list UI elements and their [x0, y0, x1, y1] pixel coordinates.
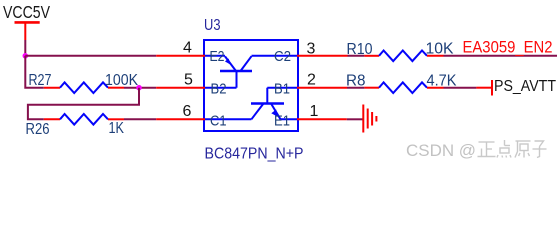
- wire R27 to pin 5: [124, 87, 156, 89]
- transistor array U3 box: [204, 40, 298, 131]
- pin 6 stub: [156, 118, 205, 120]
- ground: [363, 105, 376, 133]
- wire junction down to R27 row: [25, 56, 44, 88]
- svg-text:R8: R8: [346, 73, 366, 90]
- watermark CSDN: [406, 141, 476, 160]
- glyph 原: [515, 141, 531, 158]
- svg-text:R10: R10: [347, 41, 373, 58]
- wire pin 2 to R8: [347, 87, 364, 89]
- wire pin 3 to R10: [348, 55, 365, 57]
- svg-text:E1: E1: [274, 112, 290, 129]
- svg-text:R26: R26: [26, 121, 50, 138]
- wire net to pin 4: [25, 55, 156, 57]
- Q1 NPN emitter arrow: [271, 110, 278, 117]
- svg-text:6: 6: [183, 103, 192, 120]
- resistor R27: [29, 72, 139, 93]
- pin 4 stub: [156, 55, 205, 57]
- wire VCC5V vertical to junction: [24, 40, 26, 56]
- svg-text:PS_AVTT: PS_AVTT: [494, 78, 556, 95]
- svg-text:E2: E2: [210, 48, 225, 65]
- svg-text:3: 3: [307, 40, 316, 57]
- pin 5 stub: [156, 87, 205, 89]
- node junction A (VCC5V): [23, 53, 29, 59]
- svg-text:EA3059_EN2: EA3059_EN2: [463, 38, 553, 56]
- glyph 子: [533, 141, 547, 158]
- svg-text:5: 5: [184, 72, 193, 89]
- pin 3 stub: [297, 55, 348, 57]
- resistor R10: [347, 41, 454, 62]
- transistor Q1 (NPN half) internals: [205, 88, 297, 120]
- svg-text:BC847PN_N+P: BC847PN_N+P: [205, 146, 304, 163]
- svg-text:C1: C1: [210, 112, 227, 129]
- svg-text:1K: 1K: [109, 120, 125, 137]
- wire R26 to pin 6: [124, 118, 156, 120]
- power symbol VCC5V: [3, 2, 50, 40]
- glyph 点: [497, 140, 511, 158]
- svg-text:100K: 100K: [105, 72, 138, 89]
- resistor R26: [26, 114, 125, 138]
- resistor R8: [346, 73, 457, 93]
- svg-text:CSDN @: CSDN @: [406, 141, 476, 160]
- svg-text:R27: R27: [29, 72, 52, 89]
- glyph 正: [478, 142, 496, 157]
- svg-text:2: 2: [307, 72, 316, 89]
- wire pin 1 to ground: [347, 118, 363, 120]
- pin 2 stub: [297, 87, 347, 89]
- svg-text:4: 4: [183, 40, 192, 57]
- transistor Q2 (PNP half) internals: [205, 56, 297, 88]
- svg-text:1: 1: [310, 103, 319, 120]
- wire R10 to right edge net EA3059_EN2: [444, 55, 557, 57]
- svg-text:B2: B2: [211, 81, 227, 98]
- node junction B (R27 right): [136, 85, 142, 91]
- svg-text:U3: U3: [204, 17, 221, 34]
- svg-text:VCC5V: VCC5V: [3, 2, 50, 22]
- watermark 正点原子 glyphs: [478, 140, 547, 158]
- wire junction B down and left to R26: [28, 88, 139, 120]
- port PS_AVTT: [476, 78, 556, 96]
- pin 1 stub: [297, 118, 347, 120]
- Q2 PNP emitter arrow: [225, 59, 231, 65]
- svg-text:B1: B1: [274, 81, 290, 98]
- wire R8 to port PS_AVTT: [444, 87, 477, 89]
- svg-text:C2: C2: [274, 48, 291, 65]
